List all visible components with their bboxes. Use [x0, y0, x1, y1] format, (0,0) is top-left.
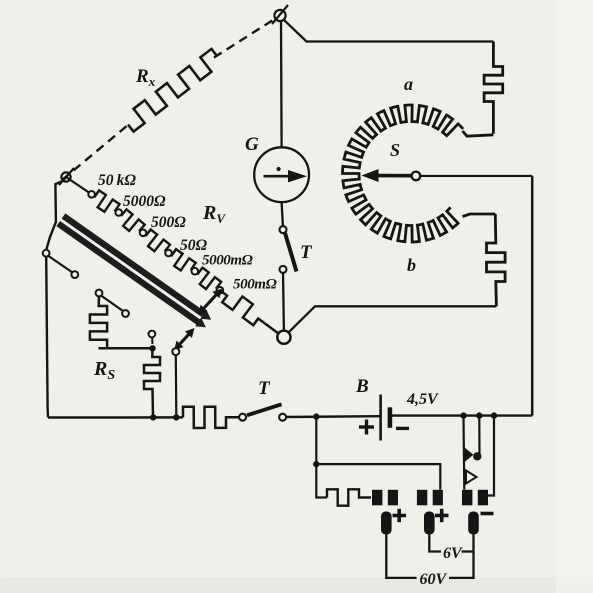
slide bar (lower) [58, 224, 206, 328]
contact triangle (open) on branch A [466, 471, 477, 484]
wire: left side down to bottom rail [46, 257, 48, 418]
resistor Rv section 3 [143, 230, 170, 254]
bottom rail wire [48, 416, 183, 419]
terminal circle above Rs junction [151, 337, 153, 344]
socket jack 1 [372, 489, 398, 506]
label - (plug 3) [481, 512, 494, 516]
wire: slider tap down to bottom rail [175, 355, 178, 417]
resistor Rv section 4 [169, 249, 196, 271]
resistor (socket 1 feed) [327, 489, 371, 505]
wire: plug row horizontal to socket 2 [316, 464, 440, 489]
node: slider tap circle [172, 348, 179, 355]
contact blob (filled) on branch B [473, 452, 481, 460]
wire: branch C down to socket 3 right [487, 418, 494, 496]
wire: plug 1 to 60V [386, 534, 416, 578]
wire: battery to right rail corner [392, 414, 532, 416]
resistor Rv section 5 [195, 268, 221, 291]
slide bar (upper) [64, 216, 212, 320]
svg-text:500mΩ: 500mΩ [233, 277, 277, 293]
resistor (ratio arm b) [487, 214, 506, 306]
wire: resistor b to bridge bottom node [289, 306, 497, 332]
rheostat ring S (toothed) [343, 105, 464, 242]
contact triangle (filled) on branch A [465, 448, 474, 463]
switch (Rs shorting) [96, 290, 129, 317]
svg-text:60V: 60V [420, 571, 448, 588]
svg-text:b: b [407, 255, 416, 275]
resistor (bottom rail, protective) [183, 407, 239, 428]
wire: left node down left side [46, 181, 64, 250]
wire: left node to Rv chain [66, 177, 92, 194]
svg-text:4,5V: 4,5V [406, 391, 439, 408]
wire: branch B down to contact blob [478, 418, 480, 457]
junction: slider line to bottom rail [173, 414, 179, 420]
svg-text:50Ω: 50Ω [180, 237, 208, 254]
label - (battery) [396, 427, 409, 430]
svg-text:T: T [258, 378, 271, 399]
resistor Rx [128, 49, 217, 132]
junction: jack branch C [491, 412, 497, 418]
wire: wiper arm to right rail [420, 175, 533, 177]
svg-text:50 kΩ: 50 kΩ [98, 172, 136, 189]
svg-text:6V: 6V [443, 545, 463, 562]
node: Rv tap 5 [192, 268, 199, 275]
wire: plug 2 to 6V [429, 534, 441, 552]
svg-text:G: G [245, 134, 259, 155]
wire: right rail down to battery line [531, 176, 534, 416]
junction: jack branch B [476, 412, 482, 418]
junction: jack branch A [460, 412, 466, 418]
socket jack 3 [462, 489, 488, 506]
resistor 500 mOhm (to bottom node) [220, 290, 278, 333]
resistor Rs (lower part) [144, 348, 160, 417]
node: Rv tap 6 [217, 287, 224, 294]
wire: dashed lead of Rx from left node to top node [62, 123, 131, 181]
banana plug 1 [381, 512, 392, 535]
wire: dashed lead of Rx upper part [214, 18, 277, 58]
switch T (battery) [239, 404, 286, 420]
terminal node (top, slashed circle) [272, 5, 288, 24]
node: bridge bottom (large open circle) [277, 331, 290, 344]
switch (left, open) [43, 250, 79, 278]
socket jack 2 [417, 489, 443, 506]
wire: down and resistor to socket 1 [316, 464, 327, 497]
node: Rv tap 4 [165, 250, 172, 257]
wire: resistor a to ring terminal [463, 131, 494, 136]
galvanometer G [254, 147, 309, 202]
wiper arm of S (arrow) [362, 169, 421, 182]
junction: battery rail left [313, 413, 319, 419]
wire: 60V to minus plug [449, 533, 474, 578]
wire: 6V to minus plug [462, 550, 474, 552]
wire: switch T to bridge bottom node [282, 273, 285, 331]
banana plug 3 [468, 512, 479, 535]
wire: ring lower terminal to resistor b [463, 214, 496, 217]
label + (plug 2) [435, 509, 449, 522]
svg-text:S: S [390, 140, 400, 160]
wire: switch T to battery [286, 415, 379, 418]
junction: Rs node [149, 345, 155, 351]
terminal node (left, slashed circle) [59, 168, 74, 185]
junction: plug row left [313, 461, 319, 467]
svg-text:B: B [355, 376, 369, 397]
battery B plates [381, 395, 393, 441]
resistor Rv section 1 [92, 190, 120, 212]
wire: top node to upper-right corner [284, 20, 494, 42]
node: Rv tap 3 [140, 230, 147, 237]
svg-text:500Ω: 500Ω [151, 214, 186, 231]
wire: top node down to galvanometer [280, 21, 283, 147]
switch T (galvanometer key) [280, 226, 297, 273]
svg-text:5000Ω: 5000Ω [123, 193, 166, 210]
resistor Rs (upper part) [90, 296, 150, 348]
wire: G to switch T (galvanometer) [282, 202, 283, 226]
svg-text:5000mΩ: 5000mΩ [202, 253, 253, 269]
banana plug 2 [424, 512, 435, 535]
node: Rv tap 2 [115, 209, 122, 216]
node: Rv tap 1 [88, 191, 95, 198]
wire: branch down from T-junction to plug row [315, 419, 317, 464]
wiper contact arrow (lower bar to slider tap) [174, 328, 195, 351]
junction: Rs to bottom rail [150, 414, 156, 420]
resistor (ratio arm a) [484, 42, 503, 134]
svg-text:a: a [404, 74, 413, 94]
label + (battery) [359, 420, 374, 435]
wire: branch A down (with contact) [462, 418, 465, 490]
svg-text:T: T [300, 242, 313, 263]
label + (plug 1) [393, 509, 407, 522]
resistor Rv section 2 [119, 209, 145, 232]
wiper contact arrow (upper bar to Rv tap) [198, 289, 222, 315]
